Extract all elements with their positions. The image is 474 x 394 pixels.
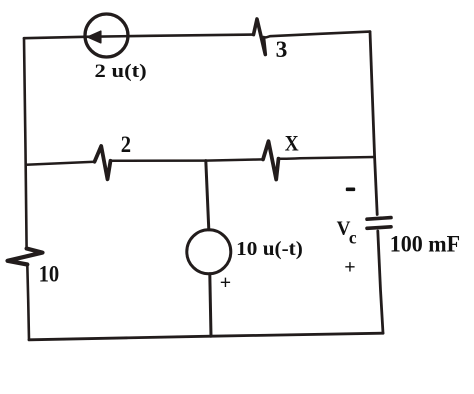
svg-text:3: 3 xyxy=(276,37,288,63)
wire: middle vertical upper (to voltage source) xyxy=(206,161,209,230)
resistor R10 zigzag (left wire) xyxy=(8,249,43,265)
wire: left vertical segment xyxy=(24,38,27,248)
svg-text:X: X xyxy=(285,131,299,156)
svg-text:100 mF: 100 mF xyxy=(390,231,460,257)
capacitor C1 top plate xyxy=(367,218,391,220)
svg-text:+: + xyxy=(220,272,231,294)
svg-text:10: 10 xyxy=(39,261,60,287)
svg-text:10 u(-t): 10 u(-t) xyxy=(236,239,303,260)
svg-text:2: 2 xyxy=(121,132,131,157)
capacitor C1 bottom plate xyxy=(367,227,391,229)
resistor R3 zigzag (top wire) xyxy=(254,19,266,55)
wire: left vertical lower segment xyxy=(27,265,29,340)
wire: top-left horizontal segment xyxy=(24,35,254,39)
wire: middle vertical lower (voltage source to bottom) xyxy=(210,274,211,336)
wire: top-right horizontal segment xyxy=(263,32,371,38)
wire: right vertical upper segment xyxy=(370,32,377,215)
wire: bottom horizontal xyxy=(29,333,383,340)
svg-text:2 u(t): 2 u(t) xyxy=(95,61,147,82)
voltage source V1 circle xyxy=(187,230,231,274)
svg-text:c: c xyxy=(349,227,357,247)
resistor R2 zigzag (middle wire) xyxy=(95,146,111,179)
capacitor minus sign (top) xyxy=(346,188,355,192)
current source I1 arrowhead xyxy=(88,31,101,43)
resistor RX zigzag (middle wire) xyxy=(263,141,279,179)
current source I1 circle xyxy=(85,14,128,57)
svg-text:+: + xyxy=(344,256,355,278)
wire: middle horizontal center segment xyxy=(111,159,264,160)
wire: middle horizontal right segment xyxy=(279,157,375,159)
wire: right vertical lower segment xyxy=(378,231,383,333)
wire: middle horizontal left segment xyxy=(26,162,95,165)
